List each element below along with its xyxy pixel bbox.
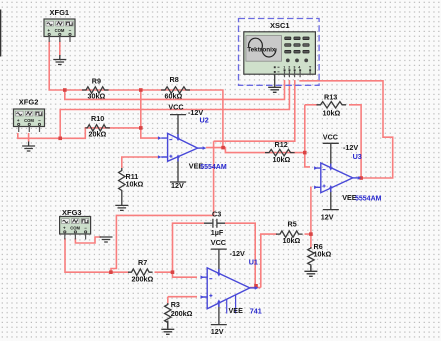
svg-text:3: 3 [293, 65, 295, 69]
svg-text:5554AM: 5554AM [355, 195, 382, 202]
svg-text:VCC: VCC [211, 238, 226, 247]
svg-text:R5: R5 [288, 220, 297, 229]
svg-text:XFG3: XFG3 [62, 208, 82, 217]
svg-text:20kΩ: 20kΩ [89, 130, 107, 139]
svg-text:R7: R7 [138, 258, 147, 267]
svg-text:1: 1 [283, 65, 285, 69]
svg-text:XSC1: XSC1 [270, 21, 290, 30]
svg-text:10kΩ: 10kΩ [126, 180, 144, 189]
svg-text:200kΩ: 200kΩ [132, 275, 154, 284]
svg-text:30kΩ: 30kΩ [88, 91, 106, 100]
svg-text:741: 741 [250, 307, 262, 316]
svg-text:R8: R8 [170, 75, 179, 84]
svg-text:12V: 12V [321, 213, 334, 222]
svg-text:VEE: VEE [229, 306, 244, 315]
svg-text:U1: U1 [249, 258, 258, 267]
svg-text:U3: U3 [353, 152, 362, 161]
svg-text:10kΩ: 10kΩ [323, 109, 341, 118]
svg-text:R13: R13 [324, 93, 337, 102]
svg-text:1µF: 1µF [211, 228, 224, 237]
svg-text:10kΩ: 10kΩ [283, 236, 301, 245]
svg-text:R9: R9 [92, 77, 101, 86]
svg-text:10kΩ: 10kΩ [273, 155, 291, 164]
svg-text:R3: R3 [171, 300, 180, 309]
svg-text:2: 2 [288, 65, 290, 69]
svg-text:-12V: -12V [230, 249, 245, 258]
svg-text:XFG1: XFG1 [50, 8, 70, 17]
svg-text:VCC: VCC [323, 133, 338, 142]
svg-text:200kΩ: 200kΩ [171, 309, 193, 318]
svg-text:R12: R12 [275, 140, 288, 149]
svg-text:C3: C3 [212, 210, 221, 219]
svg-text:4: 4 [298, 65, 300, 69]
svg-text:-12V: -12V [343, 143, 358, 152]
svg-text:U2: U2 [200, 116, 209, 125]
svg-text:VCC: VCC [168, 103, 183, 112]
svg-text:10kΩ: 10kΩ [314, 250, 332, 259]
svg-text:XFG2: XFG2 [19, 98, 39, 107]
svg-text:Tektronix: Tektronix [247, 46, 276, 53]
svg-text:60kΩ: 60kΩ [165, 91, 183, 100]
svg-text:12V: 12V [211, 327, 224, 336]
svg-text:R10: R10 [91, 114, 104, 123]
svg-text:12V: 12V [171, 181, 184, 190]
svg-text:5554AM: 5554AM [200, 164, 227, 171]
